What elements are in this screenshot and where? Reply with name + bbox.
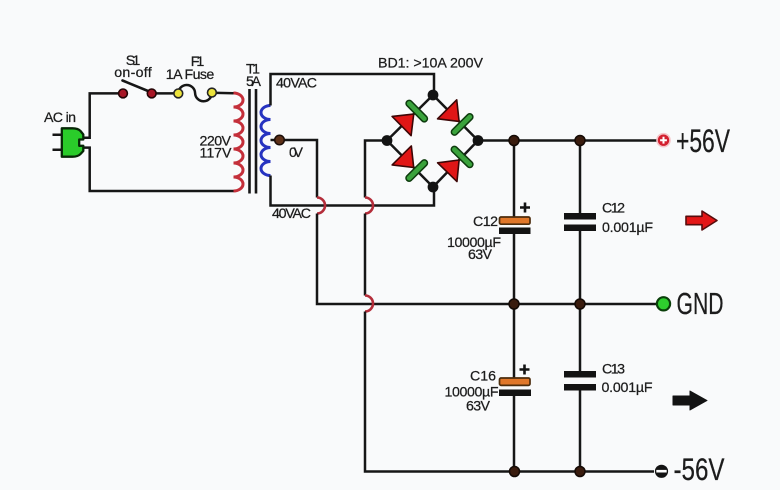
switch contact dot left bbox=[119, 89, 128, 98]
transformer T1 secondary coil bbox=[261, 106, 271, 176]
junction dot -56 rail / C16 bbox=[510, 467, 520, 477]
svg-text:-56V: -56V bbox=[674, 451, 725, 487]
wire: secondary top 40VAC to bridge top bbox=[271, 74, 435, 106]
wire: plug bottom stub to primary bottom bbox=[83, 148, 234, 191]
wire: -56V vertical middle segment bbox=[364, 214, 367, 296]
svg-text:5A: 5A bbox=[246, 74, 262, 90]
bridge BD1 diamond bbox=[387, 95, 478, 187]
capacitor C12 electrolytic orange plate bbox=[500, 217, 531, 224]
junction dot GND rail / C12-C16 bbox=[509, 299, 519, 309]
svg-text:0.001µF: 0.001µF bbox=[602, 220, 653, 236]
wire: plug top stub to switch bbox=[83, 93, 124, 137]
capacitor C12 electrolytic black plate bbox=[499, 228, 531, 235]
svg-text:C12: C12 bbox=[602, 201, 625, 217]
hop: -56V line over GND rail bbox=[365, 296, 373, 312]
svg-text:117V: 117V bbox=[200, 146, 233, 162]
wire: fuse to transformer primary bbox=[212, 92, 234, 95]
plug AC in body bbox=[62, 128, 84, 156]
fuse F1 element bbox=[178, 85, 212, 101]
fuse dot left bbox=[174, 89, 183, 98]
terminal GND circle bbox=[657, 297, 670, 310]
wire: 0V line lower segment to GND rail bbox=[317, 214, 656, 305]
wire: +56V rail bbox=[478, 139, 657, 142]
bridge node bottom bbox=[428, 182, 439, 193]
svg-text:+56V: +56V bbox=[676, 123, 730, 159]
wire: C12 electrolytic branch bbox=[513, 141, 516, 305]
diode D-bottomleft bbox=[392, 146, 429, 183]
bridge node left bbox=[382, 135, 393, 146]
svg-text:0V: 0V bbox=[289, 145, 304, 161]
junction dot +56 rail / C12film bbox=[575, 136, 585, 146]
black arrow bbox=[673, 391, 707, 410]
svg-text:1A Fuse: 1A Fuse bbox=[166, 67, 215, 83]
diode D-topleft bbox=[392, 99, 429, 136]
svg-text:GND: GND bbox=[677, 286, 724, 321]
transformer core bbox=[250, 89, 257, 194]
wire: C12 film cap branch bbox=[579, 141, 582, 305]
svg-text:63V: 63V bbox=[466, 399, 491, 415]
diode D-topright bbox=[437, 100, 474, 137]
capacitor C16 orange plate bbox=[500, 378, 531, 385]
wire: C16 branch bbox=[513, 304, 516, 472]
switch S1 lever bbox=[123, 81, 152, 93]
hop: -56V line over bottom 40VAC bbox=[365, 198, 373, 214]
capacitor C16 plus sign bbox=[520, 365, 530, 375]
wire: C13 branch bbox=[579, 304, 582, 472]
hop: 0V line over bottom 40VAC bbox=[317, 198, 325, 214]
capacitor C12 electrolytic plus sign bbox=[520, 203, 530, 213]
fuse dot right bbox=[208, 88, 217, 97]
svg-text:0.001µF: 0.001µF bbox=[602, 380, 653, 396]
wire: -56V vertical lower + rail bbox=[365, 312, 654, 472]
bridge node top bbox=[428, 90, 439, 101]
diode D-bottomright bbox=[437, 145, 474, 182]
svg-text:63V: 63V bbox=[468, 247, 493, 263]
red arrow bbox=[686, 211, 717, 230]
wire: secondary bottom 40VAC to bridge bottom bbox=[271, 176, 435, 206]
junction dot GND rail / caps bbox=[575, 299, 585, 309]
plug prongs bbox=[53, 135, 63, 150]
terminal -56V circle bbox=[655, 465, 668, 478]
svg-text:40VAC: 40VAC bbox=[276, 76, 317, 92]
junction dot +56 rail / C12 bbox=[509, 136, 519, 146]
capacitor C16 black plate bbox=[499, 390, 531, 397]
capacitor C12 film plates bbox=[564, 216, 596, 228]
svg-text:C16: C16 bbox=[470, 369, 496, 385]
svg-text:C12: C12 bbox=[473, 214, 498, 230]
capacitor C13 plates bbox=[564, 374, 596, 387]
wire: bridge left node to -56V vertical (upper) bbox=[365, 141, 387, 198]
transformer T1 primary coil bbox=[234, 93, 244, 191]
bridge node right bbox=[473, 135, 484, 146]
wire: switch to fuse bbox=[152, 92, 179, 95]
svg-text:AC in: AC in bbox=[44, 110, 76, 126]
switch contact dot right bbox=[147, 89, 156, 98]
terminal +56V circle bbox=[656, 133, 671, 148]
svg-text:C13: C13 bbox=[602, 362, 625, 378]
svg-text:40VAC: 40VAC bbox=[272, 206, 311, 222]
0V tap junction dot bbox=[275, 135, 285, 145]
wire: 0V tap right then down (upper segment) bbox=[271, 140, 318, 198]
svg-text:BD1: >10A 200V: BD1: >10A 200V bbox=[378, 55, 484, 71]
svg-text:on-off: on-off bbox=[114, 65, 152, 81]
junction dot -56 rail / C13 bbox=[575, 467, 585, 477]
